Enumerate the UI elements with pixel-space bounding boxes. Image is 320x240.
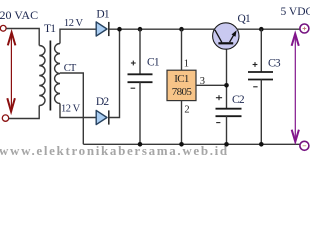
wire: IC1 pin3 output lead [196, 84, 227, 86]
wire: C2 bottom lead [226, 116, 228, 144]
wire: input top terminal to primary [6, 29, 39, 46]
output terminal negative [300, 141, 309, 150]
svg-text:12 V: 12 V [64, 18, 84, 29]
transformer T1 core [49, 41, 51, 111]
input terminal bottom [2, 115, 8, 121]
C2 minus sign [216, 122, 220, 124]
regulator IC1 7805 [167, 70, 196, 100]
svg-text:C2: C2 [232, 94, 245, 106]
C2 plus sign [216, 95, 222, 100]
svg-text:7805: 7805 [172, 86, 193, 98]
wire: ground rail [83, 143, 300, 145]
wire: C1 branch top [139, 29, 141, 74]
wire: C3 branch top [260, 29, 262, 72]
svg-text:5 VDC: 5 VDC [281, 6, 311, 18]
capacitor C3 [248, 72, 273, 80]
wire: primary bottom to input bottom terminal [9, 106, 39, 119]
wire: secondary top 12V tap to D1 anode [60, 29, 96, 43]
svg-text:IC1: IC1 [174, 73, 189, 85]
node: C3 bottom junction [259, 142, 264, 147]
svg-text:1: 1 [184, 58, 189, 69]
node: IC1 input junction [179, 27, 184, 32]
C3 minus sign [253, 86, 257, 88]
node: C1 bottom junction [138, 142, 143, 147]
transistor Q1 [213, 23, 239, 49]
node: IC1 ground junction [179, 142, 184, 147]
wire: C3 branch bottom [260, 80, 262, 145]
svg-text:T1: T1 [44, 23, 56, 35]
output terminal positive [300, 24, 309, 33]
svg-text:D1: D1 [96, 8, 110, 20]
transformer T1 secondary winding [55, 44, 60, 104]
svg-text:2: 2 [184, 104, 189, 115]
wire: IC1 pin1 lead [181, 29, 183, 70]
diode D2 [96, 110, 109, 124]
C1 minus sign [131, 87, 136, 89]
svg-text:Q1: Q1 [238, 13, 252, 25]
input AC arrow [7, 32, 15, 111]
output DC arrow [292, 34, 299, 142]
C1 plus sign [131, 61, 136, 66]
node: pin3 base junction [224, 83, 229, 88]
svg-text:C3: C3 [268, 57, 281, 69]
wire: CT tap to ground rail [60, 73, 83, 144]
svg-text:C1: C1 [147, 57, 160, 69]
wire: Q1 emitter rail to output [237, 28, 300, 30]
svg-text:www.elektronikabersama.web.id: www.elektronikabersama.web.id [0, 143, 229, 158]
wire: IC1 pin2 lead to ground rail [181, 101, 183, 145]
wire: secondary bottom 12V tap to D2 anode [60, 104, 96, 118]
svg-text:120 VAC: 120 VAC [0, 8, 38, 22]
node: C1 top junction [138, 27, 143, 32]
svg-text:12 V: 12 V [61, 104, 81, 115]
wire: D2 cathode up to positive rail [109, 29, 120, 117]
diode D1 [96, 22, 109, 36]
svg-text:CT: CT [64, 63, 77, 74]
wire: Q1 base branch down to C2 [226, 49, 228, 109]
C3 plus sign [253, 62, 258, 67]
node: C2 bottom junction [224, 142, 229, 147]
svg-text:D2: D2 [96, 96, 110, 108]
transformer T1 primary winding [39, 46, 45, 106]
node: D2 rail junction [117, 27, 122, 32]
wire: positive rail D1 cathode to Q1 collector [109, 28, 215, 30]
capacitor C2 [216, 109, 242, 117]
capacitor C1 [128, 74, 153, 82]
input terminal top [0, 25, 6, 31]
wire: C1 branch bottom [139, 82, 141, 144]
node: C3 top junction [259, 27, 264, 32]
